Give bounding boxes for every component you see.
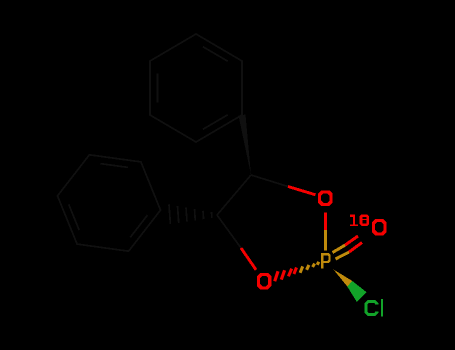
P=O double bond line 1 (red half)	[345, 236, 358, 245]
P=O double bond line 1 (goldenrod half)	[333, 245, 346, 252]
P atom label	[321, 253, 331, 269]
hashed wedge P-O3, goldenrod dashes near P	[299, 261, 321, 273]
hashed bond C5 to phenyl 2	[169, 204, 212, 224]
phenyl ring 1 (upper)	[150, 34, 242, 142]
phenyl ring 2 (lower left)	[58, 155, 161, 251]
bond C5-O3 (red half)	[241, 248, 256, 270]
wedge bond C4 to phenyl 1	[239, 115, 252, 176]
isotope label digit 1	[350, 214, 358, 226]
hashed wedge P-O3, red dashes near O3	[273, 267, 298, 282]
Cl atom label, C	[365, 300, 379, 316]
O1 atom label	[318, 190, 333, 206]
solid wedge P-Cl (goldenrod half)	[334, 270, 353, 287]
bond O1-P (red half)	[324, 213, 327, 231]
bond C5-O3 (black half)	[217, 215, 241, 248]
bond O1-P (goldenrod half)	[324, 230, 327, 251]
Cl atom label, l	[381, 299, 383, 316]
solid wedge P-Cl (green half)	[347, 281, 366, 302]
O3 atom label	[257, 273, 271, 290]
bond C4-O1 (black half)	[251, 175, 288, 187]
bond C4-O1 (red half)	[288, 187, 316, 195]
P=O double bond line 2 (red half)	[349, 243, 362, 253]
bond C4-C5	[217, 175, 251, 215]
18O oxygen label	[372, 219, 387, 236]
isotope label digit 8	[360, 214, 370, 226]
P=O double bond line 2 (goldenrod half)	[336, 252, 350, 259]
